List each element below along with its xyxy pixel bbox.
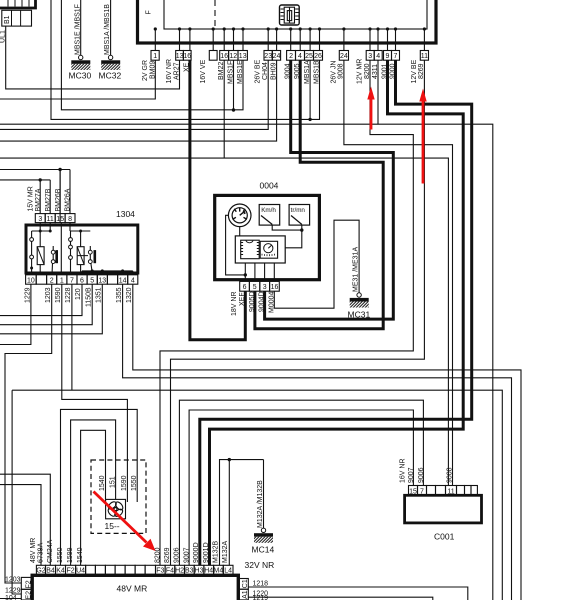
svg-text:BM27B: BM27B bbox=[45, 188, 52, 211]
wire MBS1A (ECU pin 25 junction) bbox=[309, 60, 311, 119]
svg-text:1304: 1304 bbox=[116, 209, 135, 219]
svg-text:BM27A: BM27A bbox=[35, 188, 42, 211]
wire CM24A (bottom connector B4 to left edge) bbox=[0, 474, 50, 565]
wire 9008 (ECU pin 24 to C001 pin 11) bbox=[344, 60, 453, 485]
svg-text:16: 16 bbox=[271, 284, 279, 291]
wire MBS1B (ECU pin 26 to top edge via x51) bbox=[51, 0, 320, 119]
svg-text:13: 13 bbox=[98, 277, 106, 284]
svg-text:9000D: 9000D bbox=[193, 542, 200, 563]
wire 6739A (bottom connector G2 to left edge) bbox=[0, 485, 41, 566]
svg-text:3: 3 bbox=[368, 53, 372, 60]
svg-text:4: 4 bbox=[376, 53, 380, 60]
wire 1355 (1304 pin 14 to bottom edge right) bbox=[123, 284, 512, 600]
svg-text:M132B: M132B bbox=[213, 540, 220, 563]
wire 1351 (1304 pin 13 to left edge) bbox=[0, 284, 102, 334]
svg-text:18V NR: 18V NR bbox=[231, 291, 238, 316]
svg-text:tr/mn: tr/mn bbox=[291, 207, 306, 214]
svg-text:CM24A: CM24A bbox=[47, 539, 54, 563]
svg-text:1229: 1229 bbox=[5, 588, 21, 595]
ECU pin numbers bbox=[153, 53, 428, 60]
0004 pin cells 6 5 3 16 bbox=[231, 281, 279, 316]
wire BM22 (ECU pin 16 to C001) bbox=[0, 60, 448, 485]
wire M132B (bottom connector M4 to MC14) bbox=[220, 460, 264, 566]
svg-text:1355: 1355 bbox=[116, 287, 123, 303]
svg-text:MC30: MC30 bbox=[69, 71, 92, 81]
red arrow 1 (points up at wire 8200) bbox=[367, 87, 374, 130]
svg-text:2V GR: 2V GR bbox=[142, 60, 149, 81]
wire BH09 (ECU pin 24 to left edge) bbox=[0, 60, 277, 141]
svg-text:6: 6 bbox=[80, 277, 84, 284]
svg-text:2: 2 bbox=[289, 53, 293, 60]
1304 top pin cells 3 11 15 8 bbox=[28, 186, 75, 223]
wire 1220 (bottom right cell A1 to bottom edge) bbox=[248, 597, 432, 600]
svg-text:9006: 9006 bbox=[418, 467, 425, 483]
svg-text:MC14: MC14 bbox=[252, 545, 275, 555]
svg-text:48V MR: 48V MR bbox=[30, 538, 37, 563]
svg-text:1599: 1599 bbox=[67, 547, 74, 563]
svg-text:1590: 1590 bbox=[121, 475, 128, 491]
wire M132A (bottom connector L4 to MC14) bbox=[228, 460, 230, 566]
bottom left cells F2/E2 bbox=[5, 577, 33, 600]
svg-text:48V MR: 48V MR bbox=[117, 584, 148, 594]
svg-text:24: 24 bbox=[340, 53, 348, 60]
svg-text:13: 13 bbox=[239, 53, 247, 60]
1304 bottom pin cells bbox=[24, 275, 137, 307]
0004 internal gauge wiring bbox=[226, 215, 304, 276]
tr/mn gauge box inside 0004 bbox=[289, 205, 310, 226]
svg-text:12V BE: 12V BE bbox=[411, 59, 418, 83]
svg-text:7: 7 bbox=[394, 53, 398, 60]
wire BM26A/BM26B (left edge to 1304 pins 15,8) bbox=[0, 170, 70, 214]
ECU pin cells row bbox=[151, 51, 429, 61]
connector B1 (top-left, cut off) bbox=[0, 0, 36, 43]
0004 electronics module bbox=[235, 236, 285, 282]
wire 9001/9001D thick (ECU pin 9 to bottom connector H4) bbox=[210, 60, 464, 565]
svg-text:9007: 9007 bbox=[183, 547, 190, 563]
svg-text:15--: 15-- bbox=[105, 521, 120, 531]
svg-text:11: 11 bbox=[421, 53, 428, 60]
wire 9007 (bottom connector B3 to C001 pin 15) bbox=[189, 410, 413, 565]
svg-text:23: 23 bbox=[264, 53, 272, 60]
wire 1229 (1304 pin 10 to left edge) bbox=[0, 284, 31, 344]
svg-text:3: 3 bbox=[38, 216, 42, 223]
power distribution box 48V MR bbox=[32, 575, 238, 600]
node MBS1A junction bbox=[308, 118, 311, 121]
svg-text:A1: A1 bbox=[242, 590, 249, 599]
relay K1 inside 1304 bbox=[30, 223, 58, 275]
relay box 1304 bbox=[26, 209, 138, 273]
svg-text:E2: E2 bbox=[26, 591, 33, 600]
svg-text:8: 8 bbox=[68, 216, 72, 223]
svg-text:M0004: M0004 bbox=[268, 291, 275, 313]
ground MC32 bbox=[99, 0, 122, 81]
svg-text:9005D: 9005D bbox=[249, 291, 256, 312]
speedo dial icon inside 0004 bbox=[228, 204, 251, 227]
wire 9004 thick (ECU pin 2 to 0004 pin 3) bbox=[265, 60, 394, 319]
wire 1203 (1304 pin 2 to bottom left cell) bbox=[5, 284, 52, 583]
svg-text:1219: 1219 bbox=[253, 595, 269, 600]
svg-text:15V MR: 15V MR bbox=[28, 186, 35, 211]
bottom right cells C1/A1 bbox=[238, 579, 268, 600]
svg-text:6: 6 bbox=[243, 284, 247, 291]
1304 bottom bus rail bbox=[82, 269, 133, 274]
svg-text:0004: 0004 bbox=[260, 181, 279, 191]
wire 9000/9000D thick (ECU pin 7 to bottom connector H3) bbox=[200, 60, 472, 565]
svg-text:F2: F2 bbox=[26, 580, 33, 588]
svg-text:1150B: 1150B bbox=[85, 287, 92, 307]
wire MBS1F (ECU pin 12 junction) bbox=[233, 60, 235, 110]
wire AR27 (ECU pin 13 to connector B1) bbox=[6, 26, 180, 89]
wire 1228 (1304 pin 7 to bottom edge right) bbox=[12, 284, 502, 600]
svg-text:12V MR: 12V MR bbox=[356, 59, 363, 84]
wire MBS1E (ECU pin 13 to top edge via x61) bbox=[61, 0, 243, 110]
svg-text:26V JN: 26V JN bbox=[330, 61, 337, 84]
node BM26 junction bbox=[58, 168, 61, 171]
svg-text:1540: 1540 bbox=[99, 475, 106, 491]
svg-text:M132A /M132B: M132A /M132B bbox=[257, 480, 264, 528]
svg-text:ME31 /ME31A: ME31 /ME31A bbox=[353, 247, 360, 292]
red arrow 3 (diagonal, points at wire 8200 bottom) bbox=[94, 492, 156, 552]
svg-text:8200: 8200 bbox=[154, 547, 161, 563]
wire 8269 (ECU pin 11 to bottom connector F4) bbox=[171, 60, 425, 565]
wire CH04 (ECU pin 23 to left edge) bbox=[0, 60, 268, 129]
svg-text:1: 1 bbox=[153, 53, 157, 60]
wire BM09 (ECU pin 1 to left edge) bbox=[0, 60, 155, 99]
ground MC31 bbox=[348, 247, 371, 320]
node MBS1F junction bbox=[232, 108, 235, 111]
svg-text:2: 2 bbox=[50, 277, 54, 284]
wire 1540 (bottom connector U4 to fuse box) bbox=[81, 430, 106, 565]
bottom connector strip 48V MR bbox=[30, 538, 233, 575]
svg-text:9: 9 bbox=[386, 53, 390, 60]
svg-text:1228: 1228 bbox=[65, 287, 72, 303]
ECU wire labels (rotated) bbox=[142, 59, 425, 84]
svg-text:XEF: XEF bbox=[239, 292, 246, 306]
connector C001 bbox=[399, 458, 481, 541]
svg-text:1540: 1540 bbox=[77, 547, 84, 563]
ECU box (top main box) bbox=[138, 0, 437, 43]
relay K2 inside 1304 bbox=[60, 170, 96, 275]
svg-text:24: 24 bbox=[273, 53, 281, 60]
svg-text:11: 11 bbox=[447, 488, 454, 495]
wire 9005 thick (ECU pin 4 to 0004 pin 5) bbox=[255, 60, 383, 329]
svg-text:8269: 8269 bbox=[164, 547, 171, 563]
svg-text:16V NR: 16V NR bbox=[166, 59, 173, 84]
svg-text:1550: 1550 bbox=[131, 475, 138, 491]
fuse F icon inside ECU box bbox=[280, 5, 300, 25]
svg-text:MC32: MC32 bbox=[99, 71, 122, 81]
svg-text:26: 26 bbox=[314, 53, 322, 60]
svg-text:MBS1A /MBS1B: MBS1A /MBS1B bbox=[104, 4, 111, 55]
ground MC30 bbox=[69, 0, 92, 81]
wire 9006 (bottom connector H2 to C001 pin 7) bbox=[179, 400, 423, 565]
node M132A junction bbox=[228, 458, 231, 461]
svg-text:1218: 1218 bbox=[253, 580, 269, 587]
wire 151 (bottom connector F2 to fuse box) bbox=[71, 420, 116, 565]
wire 1218 (bottom right cell C1 to bottom edge) bbox=[248, 587, 467, 600]
svg-text:26V BE: 26V BE bbox=[255, 59, 262, 83]
svg-text:5: 5 bbox=[253, 284, 257, 291]
svg-text:9004D: 9004D bbox=[259, 291, 266, 312]
svg-text:MBS1E /MBS1F: MBS1E /MBS1F bbox=[74, 4, 81, 55]
svg-text:1: 1 bbox=[60, 277, 64, 284]
ground MC14 bbox=[245, 460, 275, 570]
node BM27 junction bbox=[39, 178, 42, 181]
svg-text:F: F bbox=[146, 10, 153, 14]
svg-text:M132A: M132A bbox=[222, 540, 229, 563]
svg-text:1229: 1229 bbox=[24, 287, 31, 303]
svg-text:16: 16 bbox=[220, 53, 228, 60]
wire 1550 (bottom connector K4 to fuse box) bbox=[61, 409, 138, 565]
Km/h gauge box inside 0004 bbox=[259, 205, 280, 226]
svg-text:1320: 1320 bbox=[126, 287, 133, 303]
svg-text:9006: 9006 bbox=[174, 547, 181, 563]
svg-text:C001: C001 bbox=[434, 532, 455, 542]
svg-text:6739A: 6739A bbox=[37, 542, 44, 563]
svg-text:7: 7 bbox=[420, 488, 424, 495]
svg-text:1203: 1203 bbox=[5, 577, 21, 584]
wire XE/XEF thick (ECU pin 16 to 0004 pin 6) bbox=[190, 60, 245, 340]
svg-text:16V VE: 16V VE bbox=[200, 59, 207, 83]
svg-text:10: 10 bbox=[27, 277, 35, 284]
svg-text:1203: 1203 bbox=[45, 287, 52, 303]
wire BM27A/BM27B (left edge to 1304 pins 3,11) bbox=[0, 180, 50, 214]
svg-text:4: 4 bbox=[298, 53, 302, 60]
red arrow 2 (points up at wire 8269) bbox=[419, 89, 426, 184]
fan motor icon bbox=[106, 499, 126, 518]
svg-text:3: 3 bbox=[263, 284, 267, 291]
svg-text:BM26A: BM26A bbox=[65, 188, 72, 211]
svg-text:16: 16 bbox=[183, 53, 191, 60]
fuse box 15 (dashed) bbox=[91, 460, 146, 533]
svg-text:9007: 9007 bbox=[408, 467, 415, 483]
svg-text:Km/h: Km/h bbox=[261, 207, 276, 214]
svg-text:9008: 9008 bbox=[446, 467, 453, 483]
wire 120 (1304 pin 6 to left edge) bbox=[0, 284, 82, 315]
svg-text:1351: 1351 bbox=[96, 287, 103, 303]
instrument cluster 0004 bbox=[215, 181, 320, 280]
wire 104 (left edge to bottom left cell) bbox=[0, 598, 21, 600]
svg-text:11: 11 bbox=[47, 216, 54, 223]
svg-text:C1: C1 bbox=[242, 579, 249, 588]
svg-text:9001D: 9001D bbox=[203, 542, 210, 563]
wire 1320 (1304 pin 4 to bottom edge right) bbox=[133, 284, 521, 600]
wire M0004 (0004 pin 16 to MC31) bbox=[274, 220, 359, 308]
wire 1150B (1304 pin 5 to left edge) bbox=[0, 284, 92, 325]
svg-text:4: 4 bbox=[131, 277, 135, 284]
svg-text:32V NR: 32V NR bbox=[245, 560, 275, 570]
svg-text:104: 104 bbox=[5, 595, 17, 600]
svg-text:1550: 1550 bbox=[57, 547, 64, 563]
wire 8200 (ECU pin 3 to bottom connector F3) bbox=[160, 60, 413, 565]
svg-text:MC31: MC31 bbox=[348, 310, 371, 320]
svg-text:14: 14 bbox=[119, 277, 127, 284]
svg-text:1590: 1590 bbox=[55, 287, 62, 303]
svg-text:151: 151 bbox=[109, 476, 116, 488]
svg-text:5: 5 bbox=[90, 277, 94, 284]
svg-text:25: 25 bbox=[305, 53, 313, 60]
wire 1590 (1304 pin 1 to fuse box) bbox=[62, 284, 128, 502]
svg-text:120: 120 bbox=[75, 288, 82, 300]
svg-text:15: 15 bbox=[409, 488, 417, 495]
svg-text:12: 12 bbox=[229, 53, 237, 60]
svg-text:7: 7 bbox=[70, 277, 74, 284]
svg-text:16V NR: 16V NR bbox=[399, 458, 406, 483]
svg-text:B1: B1 bbox=[4, 15, 11, 24]
svg-text:BM26B: BM26B bbox=[55, 188, 62, 211]
ECU pin stubs and junction dots bbox=[154, 27, 426, 50]
wire 4311 (ECU pin 4 to left edge and bottom edge) bbox=[0, 60, 493, 600]
